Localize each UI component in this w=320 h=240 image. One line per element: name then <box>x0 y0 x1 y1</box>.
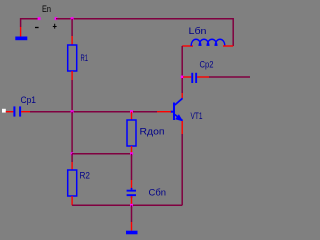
node battery plus terminal <box>55 17 58 20</box>
node base row R1 branch <box>71 110 74 113</box>
port input square <box>2 109 6 113</box>
wire R1 branch to R2 row <box>71 112 73 154</box>
svg-text:Cбn: Cбn <box>149 188 167 199</box>
resistor Rdop <box>127 112 165 154</box>
capacitor Cбn <box>127 180 166 205</box>
inductor Lбn <box>182 26 233 46</box>
capacitor Cp1 <box>6 95 36 117</box>
wire bottom rail <box>72 204 182 206</box>
svg-text:Cp1: Cp1 <box>21 95 37 106</box>
svg-text:Cp2: Cp2 <box>200 59 214 70</box>
node bottom ground junction <box>130 204 133 207</box>
node junction R1 top <box>71 17 74 20</box>
transistor VT1 <box>171 93 203 134</box>
node Rdop bottom junction <box>130 152 133 155</box>
svg-text:Rдоп: Rдоп <box>140 127 165 138</box>
battery En (gap with polarity marks) <box>35 4 57 29</box>
ground (left, battery minus) <box>15 27 27 40</box>
wire top rail <box>56 19 233 46</box>
wire R1 bottom to base node <box>71 80 73 112</box>
svg-text:Lбn: Lбn <box>189 26 207 37</box>
wire collector node down <box>181 78 183 93</box>
wire R1 branch upper <box>71 19 73 36</box>
node R2 top junction <box>71 152 74 155</box>
capacitor Cp2 <box>183 59 214 83</box>
wire ground stub <box>131 205 133 222</box>
svg-text:R1: R1 <box>81 53 89 64</box>
svg-text:En: En <box>42 4 51 15</box>
wire Rdop bottom to Cbn <box>131 154 133 180</box>
svg-text:R2: R2 <box>80 171 91 182</box>
svg-text:VT1: VT1 <box>191 111 203 122</box>
resistor R2 <box>68 154 90 206</box>
wire top-left from battery minus to ground corner <box>21 19 39 27</box>
node battery minus terminal <box>38 17 41 20</box>
wire inductor to collector node <box>181 46 183 77</box>
wire R2 row <box>72 153 131 155</box>
wire Cp2 output <box>209 76 250 78</box>
node base row Rdop branch <box>130 110 133 113</box>
resistor R1 <box>68 36 88 80</box>
wire base row <box>30 111 157 113</box>
ground (bottom) <box>126 222 138 234</box>
wire emitter down <box>181 134 183 205</box>
wire base pin <box>157 111 171 113</box>
node collector junction <box>181 76 184 79</box>
